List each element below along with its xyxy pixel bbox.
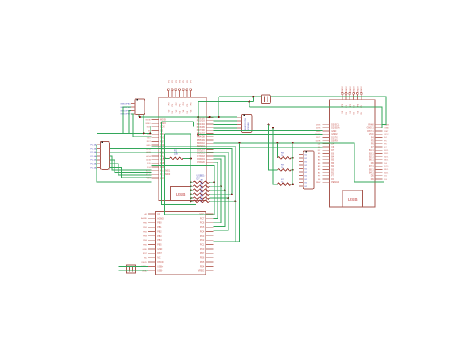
connector JP1 pin1 mark xyxy=(243,115,245,117)
svg-text:PC.0A: PC.0A xyxy=(90,163,97,166)
wire USB shield A xyxy=(118,265,148,267)
resistor R7 internal xyxy=(163,150,192,160)
svg-text:RAW: RAW xyxy=(368,124,374,127)
svg-text:MISO: MISO xyxy=(146,123,152,125)
svg-text:GND: GND xyxy=(384,128,389,130)
solder jumper SJ1 xyxy=(261,95,270,103)
wire pullup rail xyxy=(292,143,294,184)
svg-text:PB5/D9: PB5/D9 xyxy=(197,140,206,142)
connector JP2 box xyxy=(303,151,314,189)
U3 left pins xyxy=(322,125,329,183)
wire SV1 pin2 down xyxy=(123,107,131,133)
junction F2 xyxy=(276,142,278,144)
svg-text:RST 1: RST 1 xyxy=(367,131,374,133)
resistor R6 xyxy=(190,197,237,202)
SV2 net labels xyxy=(90,144,97,170)
wire SV2 riser left xyxy=(97,145,152,182)
svg-text:VCC: VCC xyxy=(384,134,389,136)
svg-text:GND 1: GND 1 xyxy=(367,128,375,130)
svg-text:F5/D20: F5/D20 xyxy=(197,162,205,164)
svg-text:PB4/D8: PB4/D8 xyxy=(197,137,206,139)
svg-text:F7/D18: F7/D18 xyxy=(197,156,205,158)
svg-text:PC.0A: PC.0A xyxy=(90,151,97,154)
svg-text:GNDX: GNDX xyxy=(357,86,359,93)
svg-text:PD7: PD7 xyxy=(200,253,205,255)
wire U1 to JP1 x3 xyxy=(213,121,237,128)
wire interior vertA to below U1 xyxy=(162,122,196,205)
svg-text:USB: USB xyxy=(176,192,186,198)
connector SV1 pin1 mark xyxy=(136,99,138,101)
junction SV1 bus b xyxy=(149,132,151,134)
svg-text:A.1A: A.1A xyxy=(146,155,151,158)
svg-text:TXO: TXO xyxy=(147,138,152,140)
wire net A descender xyxy=(218,97,220,117)
wire A-B riser xyxy=(252,97,254,102)
svg-text:RSVD: RSVD xyxy=(157,262,164,264)
svg-text:GNDX: GNDX xyxy=(354,86,356,93)
SV2 pins xyxy=(97,145,100,168)
wire SV1 pin3 down xyxy=(129,111,131,134)
svg-text:GND2: GND2 xyxy=(331,134,338,136)
JP2 pins xyxy=(299,155,303,187)
svg-text:GND: GND xyxy=(146,145,151,147)
U1 right pin names xyxy=(197,117,206,164)
svg-text:B6 1: B6 1 xyxy=(369,160,374,162)
svg-text:4.7k: 4.7k xyxy=(201,186,204,191)
svg-text:MODULE: MODULE xyxy=(248,121,250,131)
svg-text:PB3: PB3 xyxy=(157,236,162,238)
U2 right pins xyxy=(206,214,214,271)
svg-text:A.0A: A.0A xyxy=(146,158,151,161)
svg-text:GND: GND xyxy=(331,131,336,133)
wire net C xyxy=(249,107,382,128)
wire col2 U1 pin row to U2 xyxy=(213,162,217,218)
svg-text:GND: GND xyxy=(157,249,162,251)
svg-text:PB5: PB5 xyxy=(157,244,162,246)
svg-text:RST: RST xyxy=(157,253,162,255)
wire U2 pin row to riser xyxy=(213,241,239,243)
svg-text:PD6: PD6 xyxy=(200,258,205,260)
svg-text:GNDX: GNDX xyxy=(361,86,363,93)
svg-text:AGND: AGND xyxy=(141,217,147,220)
connector SV1 box xyxy=(135,99,145,115)
svg-text:D0/RX: D0/RX xyxy=(331,141,338,143)
resistor R1 xyxy=(190,178,215,183)
wire net B descender xyxy=(197,102,199,135)
svg-text:D3/S: D3/S xyxy=(316,124,321,126)
resistor R8 xyxy=(277,143,293,159)
junction B xyxy=(248,101,250,103)
wire net F (row 142.9) xyxy=(213,143,384,182)
junction W1 left xyxy=(139,116,141,118)
JP1 pins xyxy=(237,117,241,128)
svg-text:PC6: PC6 xyxy=(200,223,205,225)
wire VCC rail to R bank xyxy=(190,134,192,201)
svg-text:PB0: PB0 xyxy=(157,223,162,225)
svg-text:GNDX: GNDX xyxy=(346,86,348,93)
wire col6 SV2 through U1 to R4 xyxy=(109,149,232,195)
svg-text:PC.0A: PC.0A xyxy=(90,147,97,150)
wire col1 through U1 to U2 xyxy=(152,166,215,215)
U2 left pins xyxy=(148,214,156,271)
svg-text:MOSI: MOSI xyxy=(160,119,166,121)
svg-text:B4 1: B4 1 xyxy=(369,173,374,175)
connector JP1 box xyxy=(241,115,252,133)
svg-text:MOSI: MOSI xyxy=(146,119,152,121)
wire SV1 bottom b xyxy=(143,115,145,134)
svg-text:PC3: PC3 xyxy=(200,236,205,238)
svg-text:PC.0A: PC.0A xyxy=(90,144,97,147)
U1 top pin numbers xyxy=(168,79,192,82)
wire col3 U1 pin row to U2 xyxy=(213,159,221,223)
U1 top pin names xyxy=(168,102,192,114)
svg-text:GNDX: GNDX xyxy=(350,86,352,93)
wire net A top xyxy=(219,96,262,98)
svg-text:B3 1: B3 1 xyxy=(369,153,374,155)
svg-text:RXI: RXI xyxy=(160,134,164,136)
wire col5 SV2 through U1 to U2 xyxy=(109,152,228,230)
wire net W1 through U1 xyxy=(140,116,237,118)
wire net B xyxy=(198,101,253,103)
U1 left pins xyxy=(152,120,159,178)
svg-text:PE6/: PE6/ xyxy=(316,182,321,184)
U3 right pin names xyxy=(367,123,390,180)
wire riser x=239.5 xyxy=(239,143,241,242)
svg-text:PC.0A: PC.0A xyxy=(90,155,97,158)
svg-text:B1/D15: B1/D15 xyxy=(197,153,205,155)
svg-text:VCC: VCC xyxy=(369,134,374,136)
svg-text:PB4: PB4 xyxy=(157,240,162,242)
wire net A right xyxy=(270,97,386,125)
SV1 net labels xyxy=(121,103,132,115)
U1 top pins P$1-P$7 xyxy=(167,89,191,98)
wire interior L2 xyxy=(165,133,191,135)
svg-text:PB1: PB1 xyxy=(157,227,162,229)
SV1 pins xyxy=(131,104,135,114)
svg-text:SCK: SCK xyxy=(160,127,165,129)
U3 left pin names xyxy=(315,124,340,184)
wire net G (row 147.2) xyxy=(240,143,323,147)
resistor R2 xyxy=(190,182,222,187)
svg-text:D1/TX: D1/TX xyxy=(331,137,338,139)
U1 left pin names xyxy=(146,119,171,180)
svg-text:GND: GND xyxy=(142,249,147,251)
U3 top pins xyxy=(341,92,362,99)
svg-text:MISO: MISO xyxy=(160,123,166,125)
svg-text:PD4: PD4 xyxy=(200,266,205,268)
U3 right pins xyxy=(375,125,382,179)
svg-text:B2 1: B2 1 xyxy=(369,157,374,159)
wire SV1 pin4 down xyxy=(131,114,152,137)
junction SV1 bus a xyxy=(143,132,145,134)
junction F3 xyxy=(292,142,294,144)
connector JP2 pin1 mark xyxy=(305,151,307,153)
svg-text:PD5: PD5 xyxy=(200,262,205,264)
U2 left pin names xyxy=(141,213,164,273)
svg-text:GND: GND xyxy=(316,131,321,133)
wire interior L1 xyxy=(162,121,194,123)
svg-text:B6/D10: B6/D10 xyxy=(197,143,205,145)
svg-text:4.7k: 4.7k xyxy=(201,190,204,195)
svg-text:AGND: AGND xyxy=(157,217,164,220)
svg-text:4.7k: 4.7k xyxy=(201,178,204,183)
wire SV2 p7 to U1 xyxy=(109,168,151,178)
resistor R10 xyxy=(272,127,294,186)
IC U1 MCU module box xyxy=(159,97,207,200)
wire interior vertB into U2 xyxy=(165,134,215,215)
wire interior L1 stub xyxy=(193,122,195,127)
wire col4 U1 pin row to U2 xyxy=(213,156,225,227)
svg-text:4.7k: 4.7k xyxy=(201,197,204,202)
wire SV2 p5 to U1 xyxy=(109,160,151,173)
svg-text:GNDX: GNDX xyxy=(342,86,344,93)
svg-text:SCK: SCK xyxy=(147,127,152,129)
wire net E (row 134.6) xyxy=(198,134,322,136)
svg-text:B5 1: B5 1 xyxy=(369,169,374,171)
wire net D (row 130.4) xyxy=(213,129,322,131)
ferrite bead L1 box xyxy=(127,265,136,273)
JP1 net labels xyxy=(245,118,250,131)
svg-text:PC2: PC2 xyxy=(200,240,205,242)
U3 USB connector box xyxy=(343,190,363,207)
svg-text:D7 1: D7 1 xyxy=(369,166,375,168)
wire SV2 p4 to U1 xyxy=(109,156,151,170)
wire col7 through U1 down xyxy=(152,146,236,242)
svg-text:B3/D14: B3/D14 xyxy=(197,149,205,151)
svg-text:D0/R: D0/R xyxy=(316,140,321,142)
svg-text:D2/S: D2/S xyxy=(316,128,321,130)
svg-text:D2/SDA: D2/SDA xyxy=(331,127,340,130)
svg-text:MISO/PB3: MISO/PB3 xyxy=(121,114,132,116)
svg-text:D3/SCL: D3/SCL xyxy=(331,125,340,127)
resistor R3 xyxy=(190,186,226,191)
svg-text:4.7k: 4.7k xyxy=(201,182,204,187)
svg-text:PC.0A: PC.0A xyxy=(90,166,97,169)
junction B-W1 xyxy=(197,116,199,118)
svg-text:PE6/A0: PE6/A0 xyxy=(331,181,340,184)
U1 USB connector box xyxy=(171,187,191,201)
svg-text:D1/T: D1/T xyxy=(316,137,321,139)
wire SV1 extra riser xyxy=(149,126,151,133)
wire SV1 bottom a xyxy=(138,115,140,117)
svg-text:NC: NC xyxy=(157,258,161,260)
svg-text:RSVD: RSVD xyxy=(141,262,147,264)
wire net to U1 pin row 133 xyxy=(97,132,152,134)
junction W1 right xyxy=(218,116,220,118)
svg-text:PC0: PC0 xyxy=(200,249,205,251)
wire USB shield B xyxy=(118,270,148,272)
connector SV2 box xyxy=(100,141,109,169)
svg-text:BLUETOOTH: BLUETOOTH xyxy=(245,118,247,131)
svg-text:USB-: USB- xyxy=(157,271,163,273)
svg-text:VREG: VREG xyxy=(198,271,205,273)
connector SV2 pin1 mark xyxy=(102,141,104,143)
svg-text:PC5: PC5 xyxy=(200,227,205,229)
svg-text:A.3A: A.3A xyxy=(146,148,151,151)
junction B-E xyxy=(197,134,199,136)
net label USB data bus xyxy=(197,175,206,181)
wire SV2 p6 to U1 xyxy=(109,164,151,175)
resistor R4 xyxy=(190,190,233,195)
svg-text:PC.0A: PC.0A xyxy=(90,159,97,162)
U1 right pins xyxy=(206,118,213,163)
resistor R9 xyxy=(268,124,294,172)
svg-text:USB+: USB+ xyxy=(157,266,164,268)
resistor R5 xyxy=(190,194,230,199)
svg-text:USB: USB xyxy=(348,197,358,203)
JP2 net labels xyxy=(305,154,308,188)
svg-text:PC7: PC7 xyxy=(200,218,205,220)
svg-text:MISO/PB3: MISO/PB3 xyxy=(121,103,132,105)
IC U3 Pro Micro module box xyxy=(330,100,376,207)
U3 top pin labels xyxy=(342,86,363,115)
svg-text:PC1: PC1 xyxy=(200,244,205,246)
IC U2 USB controller box xyxy=(156,212,206,275)
svg-text:F6/D19: F6/D19 xyxy=(197,159,205,161)
junction W1 pin xyxy=(209,116,211,118)
svg-text:PC4: PC4 xyxy=(200,231,205,233)
wire B-C riser xyxy=(248,102,250,107)
U2 right pin names xyxy=(198,214,205,273)
junction F1 xyxy=(239,142,241,144)
svg-text:B1 1: B1 1 xyxy=(369,150,374,152)
svg-text:PB2: PB2 xyxy=(157,231,162,233)
junction A xyxy=(252,96,254,98)
